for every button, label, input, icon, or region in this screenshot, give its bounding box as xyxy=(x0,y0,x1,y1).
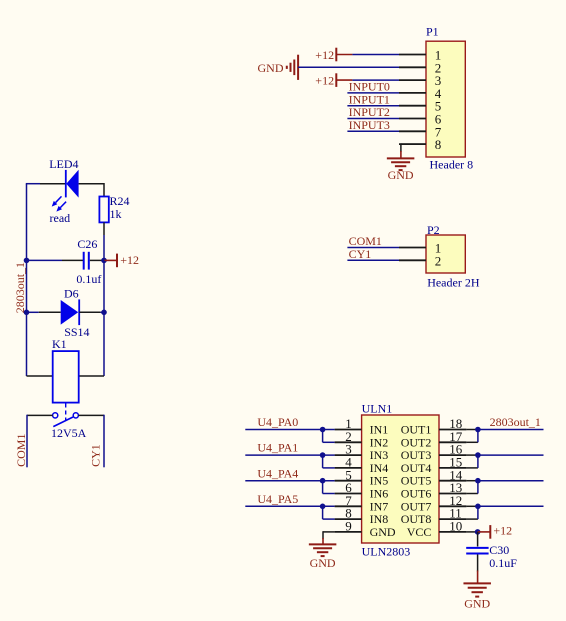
capacitor C30 xyxy=(466,543,517,570)
resistor bottom pin xyxy=(103,222,105,235)
P1 pin 8 xyxy=(399,137,441,152)
diode D6 right pin xyxy=(79,311,100,313)
wire INPUT1 xyxy=(347,105,399,107)
wire CY1 to P2 xyxy=(347,259,399,261)
connector P1 xyxy=(426,25,473,172)
wire OUT7 row extension xyxy=(466,505,478,507)
capacitor C26 xyxy=(76,237,101,286)
svg-text:CY1: CY1 xyxy=(88,444,102,467)
power GND lead (C30) xyxy=(477,571,479,584)
wire bottom row right segment xyxy=(79,375,104,377)
svg-text:2803out_1: 2803out_1 xyxy=(490,415,541,429)
relay contact right terminal xyxy=(73,413,78,418)
svg-text:ULN2803: ULN2803 xyxy=(362,544,411,558)
svg-text:COM1: COM1 xyxy=(14,434,28,467)
wire COM1 drop xyxy=(26,415,28,468)
node junction right C26 xyxy=(101,258,107,264)
P2 pin 1 xyxy=(399,241,441,256)
node junction left C26 xyxy=(24,258,30,264)
wire pair-link pins 18-17 xyxy=(466,430,478,443)
node junction U4_PA0 xyxy=(320,427,326,433)
ULN1 pin 17 (OUT2) xyxy=(401,429,467,449)
svg-text:SS14: SS14 xyxy=(64,325,89,339)
svg-text:+12: +12 xyxy=(493,523,512,537)
ULN1 pin 8 (IN8) xyxy=(335,506,389,526)
ULN1 pin 10 (VCC) xyxy=(407,519,467,539)
ULN1 pin 14 (OUT5) xyxy=(401,467,467,487)
power +12 port (P1 pin3) xyxy=(315,73,352,87)
ULN1 pin 13 (OUT6) xyxy=(401,480,467,500)
svg-text:2803out_1: 2803out_1 xyxy=(13,262,27,313)
wire OUT3 row extension xyxy=(466,454,478,456)
ULN1 pin 4 (IN4) xyxy=(335,455,389,475)
node junction U4_PA4 xyxy=(320,478,326,484)
P1 pin 5 xyxy=(399,99,441,114)
wire INPUT2 xyxy=(347,118,399,120)
ULN1 pin 2 (IN2) xyxy=(335,429,389,449)
diode D6 xyxy=(61,286,90,339)
wire OUT5 row extension xyxy=(466,480,478,482)
P1 pin 7 xyxy=(399,124,442,139)
wire P1 pin2 xyxy=(298,66,399,68)
power +12 port (P1 pin1) xyxy=(315,48,352,62)
wire pair-link pins 1-2 xyxy=(323,430,335,443)
power GND port (P1 pin2) xyxy=(258,55,299,80)
ULN1 pin 9 (GND) xyxy=(335,519,396,539)
ULN1 pin 12 (OUT7) xyxy=(401,493,467,513)
switch left wire xyxy=(27,414,53,416)
wire ULN1 pin9 to ground xyxy=(323,531,335,544)
wire pair-link pins 7-8 xyxy=(323,506,335,519)
wire VCC pin10 xyxy=(466,531,477,533)
node junction left D6 xyxy=(24,310,30,316)
ULN1 pin 18 (OUT1) xyxy=(401,416,467,436)
svg-text:12V5A: 12V5A xyxy=(51,426,87,440)
svg-text:U4_PA4: U4_PA4 xyxy=(257,466,298,480)
wire P1 pin8 to ground xyxy=(401,143,426,158)
node junction right D6 xyxy=(101,310,107,316)
P1 pin 3 xyxy=(399,73,441,88)
capacitor C26 right pin xyxy=(90,259,104,261)
wire P1 pin3 xyxy=(352,79,399,81)
wire U4_PA1 xyxy=(245,454,334,456)
relay K1 actuation dashed link xyxy=(65,404,67,422)
ULN1 pin 11 (OUT8) xyxy=(401,506,467,526)
svg-text:0.1uF: 0.1uF xyxy=(489,556,517,570)
node junction OUT row 16 xyxy=(475,452,481,458)
power +12 port (VCC) xyxy=(489,525,491,539)
net label U4_PA1 xyxy=(257,441,298,455)
P1 pin 4 xyxy=(399,86,442,101)
ULN1 pin 15 (OUT4) xyxy=(401,455,467,475)
svg-text:R24: R24 xyxy=(110,194,130,208)
P1 pin 1 xyxy=(399,48,441,63)
ULN1 pin 3 (IN3) xyxy=(335,442,389,462)
wire right-rail mid xyxy=(103,260,105,312)
wire output net row 16 xyxy=(478,454,544,456)
node junction OUT row 18 xyxy=(475,427,481,433)
svg-text:C30: C30 xyxy=(489,543,509,557)
wire top-left segment xyxy=(26,183,40,185)
power GND port (ULN1 pin9) xyxy=(309,544,337,570)
svg-text:+12: +12 xyxy=(315,48,334,62)
node junction U4_PA5 xyxy=(320,504,326,510)
relay contact left terminal xyxy=(53,413,58,418)
LED photo arrows xyxy=(52,196,66,211)
IC U1 ULN2803 xyxy=(362,401,439,558)
wire D6 row right segment xyxy=(100,311,104,313)
wire pair-link pins 3-4 xyxy=(323,455,335,468)
svg-text:P2: P2 xyxy=(427,223,440,237)
power GND port (P1 pin8) xyxy=(387,158,415,182)
svg-text:K1: K1 xyxy=(52,337,67,351)
net label U4_PA0 xyxy=(257,415,298,429)
ULN1 pin 6 (IN6) xyxy=(335,480,389,500)
net label INPUT0 xyxy=(349,80,390,94)
wire U4_PA5 xyxy=(245,505,334,507)
svg-text:U4_PA0: U4_PA0 xyxy=(257,415,298,429)
svg-text:10: 10 xyxy=(449,519,462,534)
svg-text:CY1: CY1 xyxy=(349,247,372,261)
wire INPUT3 xyxy=(347,130,399,132)
net label INPUT1 xyxy=(349,92,390,106)
wire P1 pin1 xyxy=(352,54,399,56)
wire pair-link pins 16-15 xyxy=(466,455,478,468)
wire OUT1 row extension xyxy=(466,429,478,431)
P2 pin 2 xyxy=(399,253,441,268)
ULN1 pin 5 (IN5) xyxy=(335,467,389,487)
node junction OUT row 12 xyxy=(475,504,481,510)
node junction OUT row 14 xyxy=(475,478,481,484)
svg-text:+12: +12 xyxy=(120,253,139,267)
ULN1 pin 16 (OUT3) xyxy=(401,442,467,462)
capacitor C30 bottom pin xyxy=(477,555,479,572)
svg-text:LED4: LED4 xyxy=(49,157,78,171)
wire D6 row left segment xyxy=(27,311,39,313)
svg-text:GND: GND xyxy=(258,61,284,75)
wire U4_PA0 xyxy=(245,429,334,431)
net label INPUT2 xyxy=(349,105,390,119)
svg-text:ULN1: ULN1 xyxy=(362,401,393,415)
svg-text:GND: GND xyxy=(464,596,490,610)
capacitor C26 left pin xyxy=(62,259,83,261)
svg-text:8: 8 xyxy=(435,137,442,152)
wire output net row 14 xyxy=(478,480,544,482)
wire INPUT0 xyxy=(347,92,399,94)
wire output net row 12 xyxy=(478,505,544,507)
wire right-rail upper xyxy=(103,235,105,260)
svg-text:VCC: VCC xyxy=(407,525,432,539)
svg-text:Header 2H: Header 2H xyxy=(427,275,480,289)
wire bottom row left segment xyxy=(27,375,53,377)
svg-text:GND: GND xyxy=(310,556,336,570)
svg-text:U4_PA5: U4_PA5 xyxy=(257,492,298,506)
net label U4_PA5 xyxy=(257,492,298,506)
LED D4 left pin xyxy=(40,183,65,185)
svg-text:0.1uf: 0.1uf xyxy=(76,272,101,286)
diode D6 left pin xyxy=(39,311,61,313)
node junction U4_PA1 xyxy=(320,452,326,458)
svg-text:U4_PA1: U4_PA1 xyxy=(257,441,298,455)
net label INPUT3 xyxy=(349,118,390,132)
net label U4_PA4 xyxy=(257,466,298,480)
wire CY1 drop xyxy=(103,415,105,468)
node junction VCC xyxy=(475,529,481,535)
resistor R24 xyxy=(99,194,129,222)
svg-text:GND: GND xyxy=(388,168,414,182)
power +12 lead (VCC) xyxy=(478,531,491,533)
capacitor C30 top pin xyxy=(477,532,479,547)
power GND port (C30) xyxy=(463,583,491,610)
svg-text:9: 9 xyxy=(345,519,352,534)
wire top-right corner down xyxy=(103,183,105,197)
wire COM1 to P2 xyxy=(347,247,399,249)
relay K1 coil xyxy=(52,337,79,402)
ULN1 pin 1 (IN1) xyxy=(335,416,389,436)
P1 pin 2 xyxy=(399,60,441,75)
P1 pin 6 xyxy=(399,112,442,127)
relay contact blade xyxy=(53,417,73,427)
wire C26 row left segment xyxy=(27,259,63,261)
power +12 port (C26 node) xyxy=(116,254,118,268)
svg-text:P1: P1 xyxy=(426,25,439,39)
wire pair-link pins 5-6 xyxy=(323,481,335,494)
wire U4_PA4 xyxy=(245,480,334,482)
svg-text:INPUT3: INPUT3 xyxy=(349,118,390,132)
svg-text:C26: C26 xyxy=(77,237,97,251)
power +12 lead (C26 node) xyxy=(104,259,117,261)
wire left-rail xyxy=(26,184,28,376)
LED LED4 xyxy=(49,157,78,197)
svg-text:read: read xyxy=(50,211,71,225)
svg-text:1k: 1k xyxy=(110,207,122,221)
svg-text:D6: D6 xyxy=(64,286,79,300)
wire output net row 18 xyxy=(478,429,544,431)
ULN1 pin 7 (IN7) xyxy=(335,493,389,513)
wire right-rail lower xyxy=(103,312,105,376)
connector P2 xyxy=(426,223,480,290)
svg-text:2: 2 xyxy=(435,253,442,268)
svg-text:Header 8: Header 8 xyxy=(430,158,474,172)
wire pair-link pins 12-11 xyxy=(466,506,478,519)
wire pair-link pins 14-13 xyxy=(466,481,478,494)
LED right pin xyxy=(79,183,104,185)
svg-text:GND: GND xyxy=(370,525,396,539)
switch right wire xyxy=(78,414,104,416)
svg-text:+12: +12 xyxy=(315,73,334,87)
